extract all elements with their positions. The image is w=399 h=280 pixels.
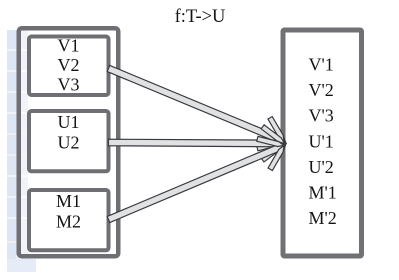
svg-text:U'2: U'2: [309, 157, 334, 177]
svg-text:M1: M1: [56, 191, 81, 211]
svg-text:V'3: V'3: [309, 106, 334, 126]
svg-text:U'1: U'1: [309, 131, 334, 151]
svg-text:V'2: V'2: [309, 80, 334, 100]
svg-text:f:T->U: f:T->U: [175, 7, 226, 27]
svg-text:V2: V2: [58, 55, 80, 75]
svg-text:V3: V3: [58, 75, 80, 95]
svg-text:M'1: M'1: [309, 183, 337, 203]
svg-text:U1: U1: [58, 112, 80, 132]
svg-text:V1: V1: [58, 35, 80, 55]
svg-text:V'1: V'1: [309, 55, 334, 75]
svg-text:M2: M2: [56, 212, 81, 232]
svg-text:M'2: M'2: [309, 208, 337, 228]
svg-text:U2: U2: [58, 133, 80, 153]
